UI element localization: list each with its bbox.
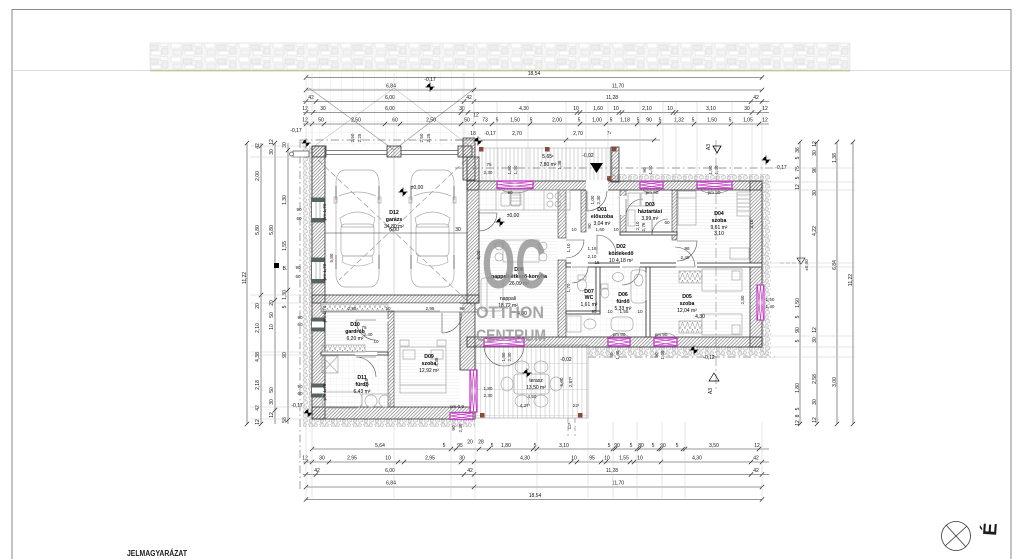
terrace chairs [515,361,529,373]
svg-text:12: 12 [754,443,760,449]
svg-text:É: É [979,522,1002,536]
west wall window garage 2 [312,258,325,283]
svg-text:2,50: 2,50 [426,118,436,124]
roof diagonals over garage [318,160,478,311]
svg-text:4,38: 4,38 [434,357,439,366]
A3 marker bottom [709,373,719,381]
svg-text:90: 90 [660,443,666,449]
svg-text:5,80: 5,80 [269,225,275,235]
left block bottom wall [312,407,475,419]
svg-text:5,64: 5,64 [375,443,385,449]
svg-text:10: 10 [613,227,619,232]
svg-text:2,80: 2,80 [740,295,745,304]
svg-text:5: 5 [491,443,494,449]
right wall elevation [797,258,805,264]
D06 tiles [600,267,646,337]
svg-text:1,80: 1,80 [795,383,801,393]
svg-text:5: 5 [443,443,446,449]
svg-text:±0,00: ±0,00 [804,259,809,271]
D10 parquet [321,311,388,352]
svg-text:73: 73 [482,118,488,124]
svg-text:1,38: 1,38 [557,160,562,169]
D11 bathtub [322,392,362,408]
svg-text:pm 1,70: pm 1,70 [322,383,327,400]
svg-text:1,38: 1,38 [832,153,838,163]
svg-text:50: 50 [318,118,324,124]
svg-text:30: 30 [812,190,818,196]
svg-text:5: 5 [795,176,801,179]
svg-text:1,55: 1,55 [619,456,629,462]
svg-text:1,60: 1,60 [596,227,605,232]
svg-text:pm 0,9: pm 0,9 [450,404,464,409]
svg-text:4,30: 4,30 [692,456,702,462]
svg-text:2,10: 2,10 [635,221,640,230]
interior: D03/D04 wall [672,190,677,240]
svg-text:30: 30 [812,150,818,156]
svg-text:pm 1,70: pm 1,70 [322,203,327,220]
svg-text:pm 90: pm 90 [655,332,668,337]
svg-text:1,70: 1,70 [566,283,571,292]
svg-text:30: 30 [320,106,326,112]
svg-text:50: 50 [464,118,470,124]
svg-text:5: 5 [282,305,288,308]
svg-text:10: 10 [373,339,379,344]
svg-text:11,28: 11,28 [606,468,618,474]
north wall of house [467,181,762,190]
garage north wall pillar left [312,146,326,157]
svg-text:1,40: 1,40 [513,165,518,174]
svg-text:60: 60 [297,391,303,396]
svg-text:2,70: 2,70 [573,131,583,137]
driveway V lines [309,88,394,150]
bottom dimension chains [312,448,769,450]
svg-text:80: 80 [609,352,614,358]
svg-text:42: 42 [466,95,472,101]
svg-text:11,70: 11,70 [612,84,624,90]
terrace sliding door [484,338,524,346]
svg-text:12: 12 [762,106,768,112]
svg-text:5: 5 [795,315,801,318]
svg-text:90: 90 [295,265,301,270]
east outer wall [750,181,762,347]
svg-text:5: 5 [729,118,732,124]
svg-text:5: 5 [795,156,801,159]
svg-text:1,00: 1,00 [590,195,595,204]
svg-text:2,95: 2,95 [347,456,357,462]
svg-text:12: 12 [812,141,818,147]
svg-text:30: 30 [812,337,818,343]
svg-text:2,87¹: 2,87¹ [568,376,573,387]
svg-text:4,30: 4,30 [519,106,529,112]
svg-text:13,50 m²: 13,50 m² [526,385,546,391]
svg-text:42: 42 [308,95,314,101]
svg-text:2,95: 2,95 [348,306,357,311]
svg-text:2,30: 2,30 [458,423,463,432]
west wall window garage 1 [312,198,325,222]
svg-text:3,99 m²: 3,99 m² [642,216,659,222]
svg-text:20: 20 [467,440,473,446]
D11 counter [362,394,392,408]
svg-text:58: 58 [282,417,288,423]
svg-text:4,38: 4,38 [255,352,261,362]
D04 parquet [677,191,750,262]
svg-text:50: 50 [269,387,275,393]
svg-text:1,40: 1,40 [648,165,653,174]
svg-text:2,95: 2,95 [426,306,435,311]
svg-text:12,92 m²: 12,92 m² [419,368,439,374]
svg-text:1,40: 1,40 [714,165,719,174]
D04 bed [678,191,696,225]
svg-text:1,40: 1,40 [615,350,620,359]
svg-text:-0,17: -0,17 [291,403,303,409]
stone band north of wing [612,174,764,182]
svg-text:pm 1,70: pm 1,70 [322,263,327,280]
svg-text:2,18: 2,18 [364,378,369,387]
extension lines [305,73,307,146]
svg-text:6,84: 6,84 [386,84,396,90]
A3 marker top [713,146,721,153]
D06 toilet [601,284,608,289]
entrance door gap [586,180,608,191]
stone drainage band west [303,146,312,427]
west outer wall [312,146,325,419]
svg-text:10: 10 [573,106,579,112]
svg-text:4,27¹: 4,27¹ [520,403,531,408]
compass [942,522,971,551]
svg-text:60: 60 [296,216,302,221]
svg-text:5: 5 [534,443,537,449]
svg-text:WC: WC [585,295,594,301]
nappali parquet [477,212,558,337]
svg-text:10: 10 [571,456,577,462]
svg-text:5: 5 [795,407,801,410]
svg-text:42: 42 [753,468,759,474]
svg-text:18: 18 [470,131,476,137]
svg-text:2,95: 2,95 [425,456,435,462]
porch floor hatch [479,148,612,181]
interior: D10/D11 wall [321,352,388,355]
west wall window D10 [312,318,325,331]
svg-text:12: 12 [302,456,308,462]
svg-text:D03: D03 [645,202,655,208]
svg-text:5: 5 [676,443,679,449]
svg-text:12: 12 [255,419,261,425]
D09 nightstands [400,340,409,346]
svg-text:2,30: 2,30 [484,393,493,398]
svg-text:5,80: 5,80 [329,253,334,262]
svg-text:2,50: 2,50 [351,118,361,124]
terrace table [514,374,549,394]
D06 bathtub [631,270,646,303]
svg-text:5: 5 [652,443,655,449]
car 1 [334,170,381,287]
interior: D10 north wardrobe / garage south lining [321,303,460,311]
svg-text:12: 12 [269,139,275,145]
kitchen tiles [479,190,572,212]
svg-text:1,30: 1,30 [282,195,288,205]
svg-text:18,54: 18,54 [528,71,541,77]
svg-text:1,55: 1,55 [282,241,288,251]
sofa [481,278,503,311]
svg-text:2,00: 2,00 [255,171,261,181]
svg-text:10: 10 [604,456,610,462]
svg-text:60: 60 [295,274,301,279]
svg-text:4,30: 4,30 [695,314,705,320]
svg-text:7,80 m²: 7,80 m² [540,162,557,168]
svg-text:7¹: 7¹ [607,131,612,137]
interior: D11/D09 wall [388,311,394,407]
garage east wall [463,138,475,180]
interior: D01 west wall [581,190,586,232]
svg-text:1,50: 1,50 [507,165,512,174]
svg-text:60: 60 [392,118,398,124]
svg-text:1,50: 1,50 [795,298,801,308]
svg-text:90: 90 [654,352,659,358]
svg-text:11,70: 11,70 [612,481,624,487]
door D01-D02 [597,235,616,254]
svg-text:6,00: 6,00 [389,227,399,233]
svg-text:közlekedő: közlekedő [608,251,633,257]
right dimension chains [799,142,801,424]
svg-text:28: 28 [478,440,484,446]
D07 toilet [578,275,586,280]
D10 wardrobes [322,304,388,311]
svg-text:JELMAGYARÁZAT: JELMAGYARÁZAT [127,549,187,558]
svg-text:30: 30 [319,456,325,462]
svg-text:pm 90: pm 90 [646,190,659,195]
svg-text:11,28: 11,28 [606,95,618,101]
svg-text:42: 42 [753,95,759,101]
window D03 north [640,182,663,194]
svg-text:95: 95 [457,443,463,449]
svg-text:1,55: 1,55 [620,309,629,314]
interior: WC east wall [596,267,600,314]
svg-text:6,43 m²: 6,43 m² [354,389,371,395]
svg-text:2,18: 2,18 [255,380,261,390]
svg-text:±0,00: ±0,00 [411,185,424,191]
svg-text:96: 96 [684,246,690,251]
svg-text:OTTHON: OTTHON [476,303,544,322]
svg-text:3,10: 3,10 [559,443,569,449]
svg-text:42: 42 [467,468,473,474]
window D05 east [757,285,764,320]
svg-text:50: 50 [269,312,275,318]
svg-text:D02: D02 [616,244,626,250]
svg-text:10: 10 [607,309,613,314]
D04 wardrobe [737,192,750,216]
svg-text:5: 5 [692,118,695,124]
svg-text:30: 30 [455,227,461,233]
svg-text:90: 90 [646,118,652,124]
svg-text:30: 30 [812,399,818,405]
svg-text:1,80: 1,80 [484,386,493,391]
window D09 east to terrace [470,370,477,412]
D09 parquet [394,311,460,407]
dining table [503,240,539,262]
svg-text:2,30: 2,30 [484,170,493,175]
svg-text:10: 10 [637,309,643,314]
D06 washbasin cab [611,317,633,331]
svg-text:-0,17: -0,17 [484,131,496,137]
svg-text:22¹: 22¹ [573,403,580,408]
svg-text:szoba: szoba [712,218,727,224]
terrace french door swing [484,346,524,366]
terrace decking [475,345,588,418]
D11 shower [322,356,338,373]
window D09 south [450,413,473,420]
D06 basin [613,273,624,282]
svg-text:4,50: 4,50 [528,394,537,399]
svg-text:95: 95 [591,309,597,314]
svg-text:pm 90: pm 90 [708,190,721,195]
B marker [274,263,279,268]
D01 tiles [586,190,620,232]
svg-text:75: 75 [361,325,367,330]
interior: D01/D03 wall [620,190,626,235]
window D08 north [497,181,533,205]
svg-text:-0,17: -0,17 [290,128,302,134]
svg-text:pm 90: pm 90 [613,332,626,337]
svg-text:20: 20 [255,303,261,309]
svg-text:2,30: 2,30 [507,352,512,361]
svg-text:2,40: 2,40 [681,255,690,260]
interior: wall under WC [566,311,600,314]
svg-text:D10: D10 [350,322,360,328]
svg-text:12: 12 [302,118,308,124]
svg-text:6,20 m²: 6,20 m² [347,336,364,342]
D03 parquet [626,190,672,232]
svg-text:garázs: garázs [386,217,403,223]
svg-text:1,10: 1,10 [566,243,571,252]
svg-text:1,61 m²: 1,61 m² [581,302,598,308]
D11 tiles [321,355,388,407]
svg-text:6,00: 6,00 [476,250,481,259]
pavement band top [150,43,850,70]
svg-text:-0,17: -0,17 [424,77,436,83]
svg-text:OC: OC [482,225,546,303]
svg-text:12: 12 [812,417,818,423]
door D03 [626,199,643,216]
svg-text:CENTRUM: CENTRUM [476,326,546,345]
D05 wardrobes [679,271,702,283]
svg-text:10: 10 [637,456,643,462]
svg-text:12: 12 [302,106,308,112]
svg-text:D01: D01 [597,207,607,213]
svg-text:-0,12: -0,12 [703,355,715,361]
svg-text:±0,00: ±0,00 [507,213,520,219]
interior: D06/D05 wall [646,267,650,337]
D07 WC tiles [566,267,596,311]
svg-text:90: 90 [459,306,465,311]
section line A3 [715,140,717,390]
svg-text:75: 75 [486,162,492,167]
svg-text:D12: D12 [389,210,399,216]
svg-text:5: 5 [630,443,633,449]
svg-text:5: 5 [530,118,533,124]
svg-text:90: 90 [642,167,647,173]
svg-text:1,80: 1,80 [501,352,506,361]
svg-text:10: 10 [385,306,391,311]
door D07 [572,267,588,283]
svg-text:6,00: 6,00 [385,95,395,101]
svg-text:5: 5 [637,118,640,124]
svg-text:2,25: 2,25 [357,133,362,142]
left dimension chains [246,143,248,424]
svg-text:18,54: 18,54 [529,493,542,499]
svg-text:1,40: 1,40 [660,350,665,359]
svg-text:2,00: 2,00 [552,118,562,124]
svg-text:90: 90 [451,425,456,431]
svg-text:1,60: 1,60 [593,106,603,112]
svg-text:90: 90 [795,327,801,333]
svg-text:szoba: szoba [680,301,695,307]
car 2 [409,170,456,287]
svg-text:-0,02: -0,02 [560,357,572,363]
svg-text:30: 30 [269,149,275,155]
svg-text:1,50: 1,50 [510,118,520,124]
garage floor [325,157,467,295]
svg-text:5,00: 5,00 [559,377,564,386]
svg-text:60: 60 [664,220,670,225]
entrance arrow [590,163,603,173]
svg-text:10: 10 [613,106,619,112]
window D05 south [654,333,677,346]
svg-text:90: 90 [297,315,303,320]
D11 basins [365,395,377,407]
svg-text:30: 30 [282,142,288,148]
D05 parquet [650,267,750,337]
svg-text:fürdő: fürdő [616,299,629,305]
svg-text:12: 12 [795,420,801,426]
pavement kerb yellow line [150,70,850,72]
svg-text:5,65¹: 5,65¹ [542,154,554,160]
south wall nappali+wing [467,337,762,347]
svg-text:1,18: 1,18 [620,118,630,124]
svg-text:90: 90 [296,207,302,212]
svg-text:3,00: 3,00 [832,377,838,387]
svg-text:D05: D05 [682,294,692,300]
svg-text:1,50: 1,50 [766,297,775,302]
D05 bed 1 [702,269,742,291]
svg-text:előszoba: előszoba [591,214,613,220]
garage north wall pillar right [458,146,472,157]
window D04 north [697,182,732,194]
west wall window D11 [312,384,325,397]
svg-text:1,50: 1,50 [707,118,717,124]
svg-text:6,00: 6,00 [385,106,395,112]
svg-text:12: 12 [269,412,275,418]
svg-text:90: 90 [614,443,620,449]
svg-text:3,10: 3,10 [706,106,716,112]
interior: nappali east wall [558,190,566,238]
door D03-D02 small [652,219,668,235]
svg-text:30: 30 [459,456,465,462]
svg-text:D04: D04 [714,211,724,217]
svg-text:2,10: 2,10 [642,106,652,112]
svg-text:36: 36 [795,147,801,153]
svg-text:4,22: 4,22 [812,226,818,236]
door D06 [622,267,640,285]
svg-text:6,00: 6,00 [385,468,395,474]
svg-text:1,00: 1,00 [592,118,602,124]
svg-text:2,10: 2,10 [255,323,261,333]
svg-text:5: 5 [608,443,611,449]
interior: corridor south wall [566,263,762,267]
svg-text:8: 8 [795,414,801,417]
svg-text:5: 5 [578,118,581,124]
svg-text:1,50: 1,50 [708,165,713,174]
svg-text:12: 12 [812,327,818,333]
